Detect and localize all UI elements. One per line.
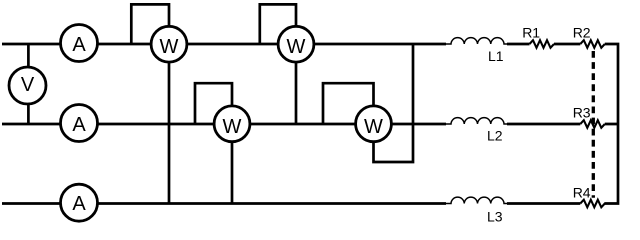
svg-text:L1: L1 bbox=[488, 48, 504, 64]
svg-text:W: W bbox=[287, 36, 306, 58]
svg-text:W: W bbox=[364, 116, 383, 138]
svg-text:A: A bbox=[72, 193, 86, 215]
svg-text:A: A bbox=[72, 34, 86, 56]
svg-text:R4: R4 bbox=[573, 184, 591, 200]
svg-text:A: A bbox=[72, 114, 86, 136]
svg-text:V: V bbox=[21, 74, 35, 96]
svg-text:W: W bbox=[223, 116, 242, 138]
svg-text:R1: R1 bbox=[522, 25, 540, 41]
svg-text:L3: L3 bbox=[487, 208, 503, 224]
svg-text:R3: R3 bbox=[573, 104, 591, 120]
svg-text:R2: R2 bbox=[573, 25, 591, 41]
svg-text:W: W bbox=[160, 36, 179, 58]
svg-text:L2: L2 bbox=[487, 127, 503, 143]
